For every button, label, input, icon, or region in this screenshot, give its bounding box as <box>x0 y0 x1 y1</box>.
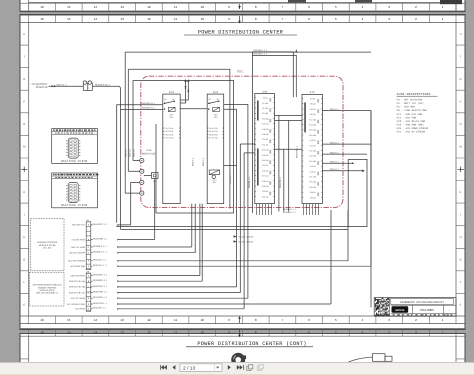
svg-text:F5 10A: F5 10A <box>262 102 269 105</box>
svg-text:86: 86 <box>172 98 174 101</box>
svg-text:ENG ECU B+ (B): ENG ECU B+ (B) <box>69 286 85 289</box>
svg-text:12: 12 <box>147 331 151 335</box>
svg-text:R: R <box>23 78 25 81</box>
svg-text:F2-A F2-B: F2-A F2-B <box>165 130 174 133</box>
svg-text:F23 15A: F23 15A <box>309 155 317 158</box>
CCM dashed module box <box>30 219 64 271</box>
svg-text:F21 5A: F21 5A <box>310 144 317 147</box>
svg-text:F28 15A: F28 15A <box>309 181 317 184</box>
svg-text:11: 11 <box>174 5 177 9</box>
svg-text:14: 14 <box>94 5 98 9</box>
svg-text:POWER DISTRIBUTION CENTER (CON: POWER DISTRIBUTION CENTER (CONT) <box>197 341 306 347</box>
svg-text:F5 - BATT LPC (AV): F5 - BATT LPC (AV) <box>397 102 425 105</box>
outer feed wire / harness top <box>125 51 371 53</box>
tower bottom stubs <box>257 204 319 215</box>
svg-text:F12 30A: F12 30A <box>309 118 317 121</box>
svg-text:F6-A F6-B: F6-A F6-B <box>209 133 218 136</box>
svg-text:PDC: PDC <box>237 70 244 74</box>
mating view connector A <box>52 129 98 164</box>
svg-text:RED/BLK 6, 1: RED/BLK 6, 1 <box>142 107 156 110</box>
B+ stud feed verticals <box>125 52 133 193</box>
svg-text:F19 - ENG PWR (DB): F19 - ENG PWR (DB) <box>397 123 425 126</box>
svg-text:F4-A F4-B: F4-A F4-B <box>165 137 174 140</box>
svg-text:P: P <box>23 101 25 104</box>
svg-text:M: M <box>23 146 25 149</box>
svg-text:H: H <box>460 236 462 239</box>
svg-text:10: 10 <box>201 17 205 21</box>
svg-text:X-02: X-02 <box>310 91 316 94</box>
svg-text:11: 11 <box>174 17 177 21</box>
svg-text:F28 15A: F28 15A <box>262 180 270 183</box>
T4 outputs right <box>322 111 371 308</box>
feeds above fuse towers <box>252 52 296 213</box>
svg-text:F4-A F4-B: F4-A F4-B <box>209 127 218 130</box>
svg-text:F19 20A: F19 20A <box>262 133 270 136</box>
svg-text:RED 1,1: RED 1,1 <box>192 157 195 166</box>
svg-text:15: 15 <box>67 17 71 21</box>
viewer bottom toolbar <box>0 362 474 375</box>
toolbar bottom tint <box>0 373 474 375</box>
page 1 sheet bottom sliver <box>20 0 465 12</box>
connector pin strip X1 <box>68 219 91 270</box>
page number box <box>180 364 222 372</box>
risers below towers <box>192 204 202 282</box>
svg-text:F8 10A: F8 10A <box>262 112 269 115</box>
svg-text:14: 14 <box>94 331 98 335</box>
svg-text:F8 - LINE HEATER PWR: F8 - LINE HEATER PWR <box>397 109 428 112</box>
feed wire B <box>128 69 230 208</box>
svg-text:RED/ORG 1, 1: RED/ORG 1, 1 <box>93 291 108 294</box>
battery feed wire <box>49 86 121 229</box>
loading ring behind toolbar <box>231 353 246 367</box>
svg-text:RED/VIO 1, 1: RED/VIO 1, 1 <box>93 307 107 310</box>
relay feed wires <box>117 105 163 227</box>
svg-text:13: 13 <box>121 5 125 9</box>
svg-text:F4 5A: F4 5A <box>263 97 269 100</box>
svg-text:RED 8, 1: RED 8, 1 <box>330 108 340 111</box>
svg-text:RED 8, 1: RED 8, 1 <box>330 160 340 163</box>
svg-text:RED 8, 1: RED 8, 1 <box>330 168 340 171</box>
svg-text:ACU UP STREAM: ACU UP STREAM <box>68 260 85 263</box>
T4 output labels <box>330 108 340 171</box>
svg-text:+BLK 1, 1.0mm: +BLK 1, 1.0mm <box>238 236 253 239</box>
svg-text:RED/WHT 1, 1: RED/WHT 1, 1 <box>93 273 108 276</box>
svg-text:F18 10A: F18 10A <box>262 128 270 131</box>
battery label <box>30 83 47 89</box>
svg-text:F20 5A: F20 5A <box>310 139 317 142</box>
svg-text:RED/GRN 1: RED/GRN 1 <box>295 145 298 158</box>
svg-text:11: 11 <box>174 331 177 335</box>
next/last buttons <box>228 365 244 370</box>
svg-text:RED 6,2: RED 6,2 <box>128 148 131 157</box>
svg-text:MEGA FUSE: MEGA FUSE <box>142 152 156 155</box>
svg-text:RED/LBL 1, 1: RED/LBL 1, 1 <box>93 259 107 262</box>
svg-text:ENG ECU B+ (A): ENG ECU B+ (A) <box>69 280 85 283</box>
bottom wire fan <box>91 111 371 309</box>
svg-text:12: 12 <box>147 17 151 21</box>
svg-text:F27 10A: F27 10A <box>262 175 270 178</box>
svg-text:IGN IGN OUT: IGN IGN OUT <box>72 224 86 227</box>
svg-text:E: E <box>460 304 462 307</box>
svg-text:F6 15A: F6 15A <box>262 107 269 110</box>
svg-text:F30 5A: F30 5A <box>310 191 317 194</box>
svg-text:X-03: X-03 <box>262 90 268 93</box>
svg-text:F30 5A: F30 5A <box>262 190 269 193</box>
svg-text:10: 10 <box>201 331 205 335</box>
svg-text:RED/PNK 1, 1: RED/PNK 1, 1 <box>93 296 108 299</box>
splice markers <box>234 235 254 243</box>
page 3 title <box>186 341 313 347</box>
svg-text:ENGINE CONTROL: ENGINE CONTROL <box>38 286 58 289</box>
svg-text:RED/BLU 1: RED/BLU 1 <box>248 176 251 188</box>
svg-text:GROVE: GROVE <box>395 309 405 312</box>
svg-text:16: 16 <box>40 5 44 9</box>
svg-text:K: K <box>23 191 25 194</box>
riser T2-T3 gap <box>240 144 255 309</box>
svg-text:LINE HTR PWR: LINE HTR PWR <box>70 274 85 277</box>
svg-text:F25 5A: F25 5A <box>262 164 269 167</box>
svg-text:F14 10A: F14 10A <box>309 124 317 127</box>
svg-text:RED/WHT 1, 1: RED/WHT 1, 1 <box>93 223 108 226</box>
svg-text:RED/GRN 1, 1: RED/GRN 1, 1 <box>93 237 108 240</box>
junction arrow <box>295 49 297 52</box>
svg-text:U: U <box>460 33 462 36</box>
svg-text:F27 10A: F27 10A <box>309 176 317 179</box>
fuse descriptions list <box>397 93 438 133</box>
svg-text:AFTERTREATMENT (DB) ECU: AFTERTREATMENT (DB) ECU <box>33 284 63 287</box>
svg-text:12: 12 <box>147 318 151 322</box>
svg-text:F19 20A: F19 20A <box>309 134 317 137</box>
svg-text:RED/WHT 1: RED/WHT 1 <box>229 171 232 184</box>
svg-text:RED/BLK 1, 1: RED/BLK 1, 1 <box>254 49 268 52</box>
svg-text:RED 6,2: RED 6,2 <box>125 148 128 157</box>
fuse tower X-03 <box>255 90 275 203</box>
svg-text:P: P <box>460 101 462 104</box>
svg-text:K: K <box>460 191 462 194</box>
svg-text:POWER DISTRIBUTION CENTER: POWER DISTRIBUTION CENTER <box>198 29 283 35</box>
relay feed labels <box>142 102 156 110</box>
svg-text:RED/GRA 1, 1: RED/GRA 1, 1 <box>93 285 108 288</box>
K-02 sheet arrows <box>180 79 189 103</box>
svg-text:MATING VIEW: MATING VIEW <box>61 203 88 207</box>
feed wire C <box>133 81 234 214</box>
svg-text:RED 62, 2: RED 62, 2 <box>57 83 68 86</box>
svg-text:15: 15 <box>67 331 71 335</box>
svg-text:G: G <box>459 259 461 262</box>
svg-text:RED/BLK 1, 1: RED/BLK 1, 1 <box>283 211 297 214</box>
wire gauge labels <box>57 83 111 86</box>
toolbar first/prev buttons <box>160 365 175 370</box>
svg-text:F7-A F7-B: F7-A F7-B <box>209 137 218 140</box>
svg-text:10: 10 <box>201 5 205 9</box>
svg-text:13: 13 <box>121 331 125 335</box>
svg-text:85: 85 <box>164 98 166 101</box>
svg-text:PRA 6005: PRA 6005 <box>420 308 434 312</box>
svg-text:F1-A F1-B: F1-A F1-B <box>165 127 174 130</box>
svg-text:F22 10A: F22 10A <box>262 149 270 152</box>
B+ stud terminals <box>125 158 144 225</box>
svg-text:16: 16 <box>40 17 44 21</box>
relay tower K-02 <box>163 91 180 203</box>
svg-text:F21 - ACU UP STREAM: F21 - ACU UP STREAM <box>397 131 426 134</box>
title block <box>374 298 456 317</box>
svg-text:FUSE DESCRIPTIONS: FUSE DESCRIPTIONS <box>397 93 431 96</box>
svg-text:RED/BLK 60, 2: RED/BLK 60, 2 <box>95 83 111 86</box>
svg-text:RED 8, 1: RED 8, 1 <box>330 141 340 144</box>
page 3 partial sketch <box>347 354 392 363</box>
svg-text:RED/TAN 1, 1: RED/TAN 1, 1 <box>93 302 107 305</box>
svg-text:13: 13 <box>121 318 125 322</box>
connector pin strip DB <box>67 270 91 311</box>
svg-text:U: U <box>23 33 25 36</box>
svg-text:G: G <box>23 259 25 262</box>
svg-text:F24 10A: F24 10A <box>262 159 270 162</box>
A-06 MEGA FUSE label <box>142 149 156 155</box>
svg-text:MODULE (CCM): MODULE (CCM) <box>39 244 56 247</box>
T2 relay wire to riser <box>224 165 237 167</box>
svg-text:-: - <box>449 308 450 312</box>
svg-text:F26 5A: F26 5A <box>262 169 269 172</box>
svg-text:16: 16 <box>40 318 44 322</box>
svg-text:ACU DOWN STRM: ACU DOWN STRM <box>67 303 85 306</box>
svg-text:SCHEMATIC: 2010 WG ENG AND AFT: SCHEMATIC: 2010 WG ENG AND AFT <box>400 301 444 304</box>
svg-text:F21 5A: F21 5A <box>262 143 269 146</box>
svg-text:BAT ACTUATOR: BAT ACTUATOR <box>69 252 85 255</box>
relay K inside tower 2 <box>209 170 219 175</box>
svg-text:RED/BLK 1, 1: RED/BLK 1, 1 <box>283 208 297 211</box>
svg-text:ACU PWR (DB): ACU PWR (DB) <box>70 265 85 268</box>
K-04 outputs <box>224 105 248 299</box>
bottom wire labels <box>93 223 120 310</box>
svg-text:F5-A F5-B: F5-A F5-B <box>209 130 218 133</box>
svg-text:10: 10 <box>201 318 205 322</box>
svg-text:F5 10A: F5 10A <box>310 103 317 106</box>
ECU/DCU dashed module box <box>30 272 65 306</box>
svg-text:CHASSIS CONTROL: CHASSIS CONTROL <box>37 241 59 244</box>
svg-text:14: 14 <box>94 17 98 21</box>
right loop rect <box>348 159 367 226</box>
svg-text:F25 5A: F25 5A <box>310 165 317 168</box>
svg-text:RED/BLK 1, 1: RED/BLK 1, 1 <box>93 245 107 248</box>
svg-text:RED 8, 1: RED 8, 1 <box>330 151 340 154</box>
PDC boundary red dash-dot <box>141 70 343 208</box>
relay tower K-04 <box>207 91 224 203</box>
svg-text:F18 10A: F18 10A <box>309 129 317 132</box>
svg-text:MODULE (DCU): MODULE (DCU) <box>40 289 56 292</box>
svg-text:H: H <box>23 236 25 239</box>
lower loop wires <box>117 227 349 230</box>
svg-text:15: 15 <box>67 5 71 9</box>
svg-text:F3-A F3-B: F3-A F3-B <box>165 133 174 136</box>
svg-text:F29 10A: F29 10A <box>309 186 317 189</box>
svg-text:F26 5A: F26 5A <box>310 170 317 173</box>
sheet title <box>184 29 297 35</box>
stud feed rotated labels <box>125 148 136 157</box>
page layout icons <box>247 365 253 371</box>
svg-text:E: E <box>23 304 25 307</box>
svg-text:RED/YEL 1, 1: RED/YEL 1, 1 <box>93 264 107 267</box>
svg-text:(X1, X2): (X1, X2) <box>43 247 51 250</box>
svg-text:14: 14 <box>94 318 98 322</box>
rotated wire labels <box>192 145 299 188</box>
inline connector bowtie <box>52 85 55 88</box>
svg-text:F14 - DCU PWR: F14 - DCU PWR <box>397 116 417 119</box>
svg-text:85: 85 <box>209 98 211 101</box>
page 2 border rulers <box>20 15 465 323</box>
svg-text:N: N <box>23 123 25 126</box>
svg-text:RED 6,2: RED 6,2 <box>133 148 136 157</box>
svg-text:(DB, DC) SA AT/DB, C1: (DB, DC) SA AT/DB, C1 <box>36 292 59 295</box>
svg-text:F31 5A: F31 5A <box>310 196 317 199</box>
svg-text:+BLK 1, 1.0mm: +BLK 1, 1.0mm <box>238 241 253 244</box>
page 3 rulers <box>20 329 465 375</box>
svg-text:BAT LVL MAIN: BAT LVL MAIN <box>71 246 85 249</box>
svg-text:F6 15A: F6 15A <box>310 108 317 111</box>
feed labels <box>254 49 268 56</box>
svg-text:F31 5A: F31 5A <box>262 195 269 198</box>
svg-text:F14 10A: F14 10A <box>262 123 270 126</box>
svg-text:86: 86 <box>217 98 219 101</box>
megafuse <box>83 81 92 91</box>
svg-text:ENG ECU B+ (C): ENG ECU B+ (C) <box>69 291 85 294</box>
K-02 to K-04 wire <box>180 108 207 110</box>
svg-text:CCM B+ PWR: CCM B+ PWR <box>72 238 86 241</box>
svg-text:13: 13 <box>121 17 125 21</box>
page 2 sheet <box>20 15 465 330</box>
svg-text:RED 1,1: RED 1,1 <box>202 157 205 166</box>
svg-text:F12 30A: F12 30A <box>262 117 270 120</box>
svg-text:F20 5A: F20 5A <box>262 138 269 141</box>
under-tower labels <box>283 208 297 214</box>
svg-text:F8 10A: F8 10A <box>310 113 317 116</box>
svg-text:F29 10A: F29 10A <box>262 185 270 188</box>
fuse tower X-02 <box>302 91 322 203</box>
svg-text:ECU RLY PWR: ECU RLY PWR <box>71 297 86 300</box>
svg-text:RED/BLK 1, 1: RED/BLK 1, 1 <box>254 53 268 56</box>
mating view connector B <box>52 173 99 208</box>
svg-text:POSITIVE: POSITIVE <box>36 86 48 89</box>
cross wires T3-T4 <box>275 115 303 211</box>
svg-text:M: M <box>459 146 461 149</box>
svg-text:12: 12 <box>147 5 151 9</box>
svg-text:MATING VIEW: MATING VIEW <box>61 159 88 163</box>
svg-text:F22 10A: F22 10A <box>309 150 317 153</box>
svg-text:15: 15 <box>67 318 71 322</box>
fuse F98 <box>144 173 158 240</box>
svg-text:RED/BLK 6, 1: RED/BLK 6, 1 <box>142 102 156 105</box>
svg-text:F24 10A: F24 10A <box>309 160 317 163</box>
svg-text:R: R <box>460 78 462 81</box>
svg-text:RED/BRN 1, 1: RED/BRN 1, 1 <box>93 279 108 282</box>
page 3 sheet top sliver <box>20 334 465 375</box>
svg-text:N: N <box>460 123 462 126</box>
svg-text:RED/BLU 1, 1: RED/BLU 1, 1 <box>93 251 108 254</box>
svg-text:F23 15A: F23 15A <box>262 154 270 157</box>
svg-text:DCU PWR: DCU PWR <box>75 308 85 311</box>
svg-text:11: 11 <box>174 318 177 322</box>
svg-text:F4 5A: F4 5A <box>310 98 316 101</box>
svg-text:16: 16 <box>40 331 44 335</box>
